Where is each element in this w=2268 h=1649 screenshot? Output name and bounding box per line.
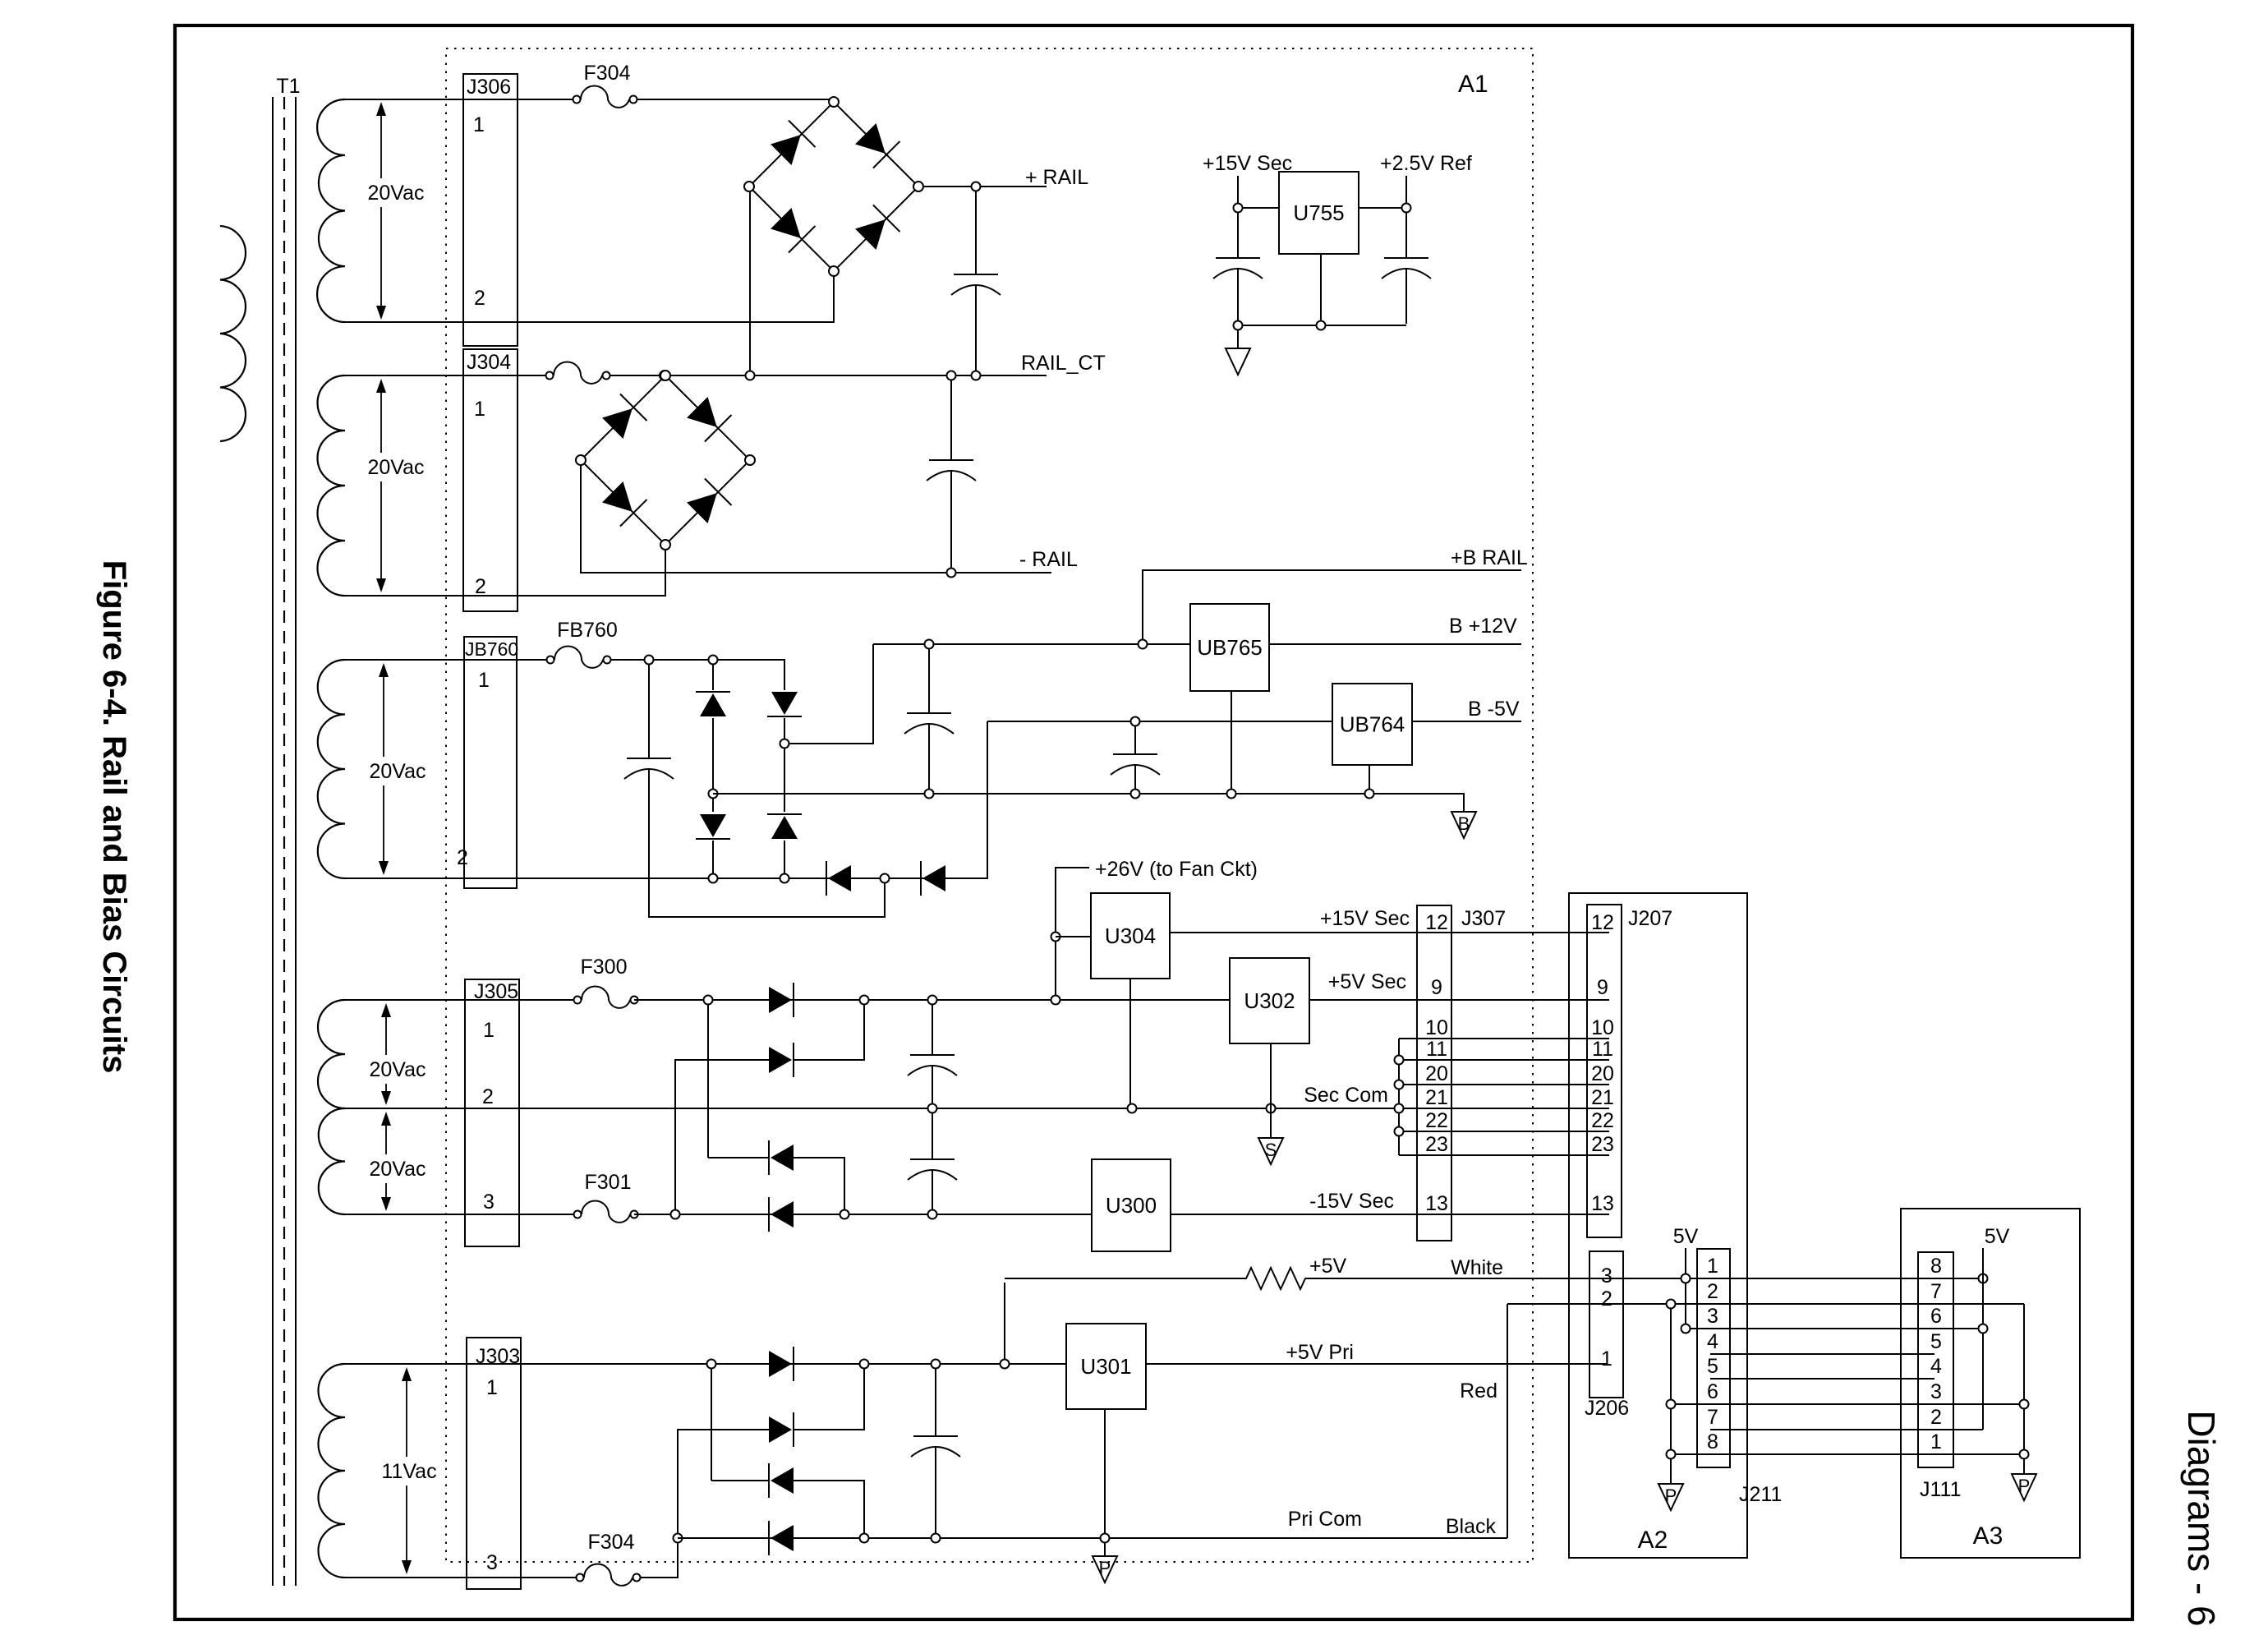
wire: +5V Sec (U302 output to pin 9): [1309, 999, 1609, 1001]
svg-text:- RAIL: - RAIL: [1019, 548, 1078, 571]
wire: W5 top to J303 pin1 rail: [345, 1363, 1066, 1365]
wire: +15V Sec stub to U755 input: [1238, 176, 1279, 208]
svg-text:7: 7: [1707, 1406, 1718, 1429]
resistor R (+5V dropper): [1005, 1268, 1306, 1289]
node: bus at pin 22: [1395, 1127, 1404, 1136]
wire: W3 top to JB760 pin1 / fuse FB760: [345, 659, 547, 661]
svg-text:6: 6: [1707, 1380, 1718, 1403]
wire: W3 bottom (JB760 pin2) rail: [345, 877, 982, 879]
regulator UB764: [1332, 684, 1412, 765]
node: Sec Com at U304 gnd: [1128, 1104, 1137, 1113]
bridge diode (upper-left): [768, 121, 816, 168]
regulator UB765: [1190, 604, 1269, 691]
svg-text:5: 5: [1930, 1330, 1942, 1353]
regulator U300: [1092, 1159, 1171, 1251]
wire: CR2 left node down / -RAIL rail: [581, 465, 1051, 573]
node: +RAIL / C1 junction: [972, 182, 981, 191]
bridge node (bottom): [829, 266, 839, 276]
node: P at J211 pin8: [1667, 1450, 1676, 1459]
node: B+12V unreg node: [780, 739, 789, 748]
wire: U304 input: [1056, 936, 1091, 937]
winding W2 (20Vac, J304): [318, 375, 346, 596]
fuse F304 (J306): [573, 96, 581, 104]
fuse FB760: [547, 656, 554, 664]
svg-text:RAIL_CT: RAIL_CT: [1021, 352, 1106, 375]
bridge diode (lower-right): [684, 479, 732, 527]
winding W3 (20Vac, JB760): [318, 660, 345, 878]
svg-text:+5V Sec: +5V Sec: [1328, 970, 1406, 993]
svg-text:J304: J304: [467, 351, 511, 374]
wire: U304 ground stub: [1129, 979, 1131, 1103]
wire: B -5V rail (left of UB764): [987, 721, 1332, 722]
diode CR761 (to B-5V, first): [826, 861, 851, 896]
wire: F300 to +5V unreg rail: [634, 999, 1230, 1001]
node: B+12V at C6: [925, 640, 934, 649]
node: +5V rail at U304 feed: [1051, 996, 1060, 1005]
node: B-5V at C7: [1131, 717, 1140, 726]
svg-text:3: 3: [1707, 1305, 1718, 1328]
svg-text:U755: U755: [1293, 200, 1344, 225]
bridge node (top): [660, 371, 670, 380]
wire: row 7 (J211-7 / J111-2): [1710, 1429, 1983, 1430]
wire: +5V White row (J206-3 / J211-1 / J111-8): [1306, 1278, 1983, 1279]
connector J303 box: [467, 1338, 521, 1589]
wire: F304 to bridge CR1 top node: [637, 99, 829, 100]
svg-text:3: 3: [1930, 1380, 1942, 1403]
transformer core line (center dashed): [283, 97, 285, 1586]
connector J304 box: [463, 349, 518, 611]
node: U755 output: [1402, 204, 1411, 213]
svg-text:A3: A3: [1973, 1522, 2003, 1550]
diode D401 (from pin3): [769, 1412, 794, 1447]
wire: stub to P ground (U301): [1104, 1543, 1106, 1556]
svg-text:U301: U301: [1080, 1354, 1131, 1379]
bridge node (right): [913, 182, 923, 191]
svg-text:Figure 6-4. Rail and Bias Circ: Figure 6-4. Rail and Bias Circuits: [96, 560, 132, 1074]
node: 5V at J211 pin1: [1681, 1274, 1691, 1283]
svg-text:1: 1: [483, 1019, 495, 1042]
wire: W5 bottom to J303 pin3 / fuse F304: [345, 1577, 577, 1578]
wire: B +12V rail (left of UB765): [873, 643, 1190, 645]
wire: 5V stub left: [1685, 1248, 1686, 1274]
diode D403 (on Pri Com rail): [769, 1521, 794, 1555]
node: +5V rail at C8: [928, 996, 937, 1005]
node: B common at diode col1: [709, 790, 718, 799]
wire: B -5V rail (right of UB764): [1412, 721, 1521, 722]
node: P at J211 pin6: [1667, 1400, 1676, 1409]
diode CR760c (col2 down): [767, 692, 802, 716]
node: 5V at J211 pin3: [1681, 1324, 1691, 1333]
node: Pri Com at C10: [932, 1534, 941, 1543]
svg-text:2: 2: [475, 575, 486, 598]
svg-text:A2: A2: [1638, 1527, 1668, 1554]
connector J206 box: [1589, 1251, 1623, 1398]
svg-text:11: 11: [1592, 1038, 1613, 1061]
wire: U755 ground rail: [1238, 325, 1406, 326]
connector JB760 box: [464, 637, 517, 888]
connector J211 box: [1697, 1249, 1730, 1467]
node: B common at UB765: [1227, 790, 1236, 799]
ground symbol P (A3): [2012, 1474, 2036, 1500]
node: +5V Pri rail at C10: [932, 1360, 941, 1369]
wire: pin 11: [1399, 1059, 1609, 1061]
svg-text:12: 12: [1591, 911, 1614, 934]
wire: W4 mid to J305 pin2 / Sec Com: [345, 1108, 1395, 1109]
node: RAIL_CT at CR1-left vertical: [746, 371, 755, 380]
svg-text:J306: J306: [467, 76, 511, 99]
wire: col2 node to B+12V rail: [789, 644, 873, 744]
diode D303 (neg rect lower, on -15V rail): [769, 1197, 794, 1232]
node: JB760 pin2 at col2: [780, 874, 789, 883]
wire: Sec Com tie bus vertical: [1398, 1039, 1400, 1155]
dimension arrow 20Vac (W2): [376, 379, 386, 393]
wire: D301 cathode up to +5V rail: [794, 1005, 864, 1060]
winding W1 (20Vac, J306): [317, 99, 345, 322]
wire: stub to ground symbol: [1237, 330, 1239, 348]
svg-text:U302: U302: [1244, 988, 1295, 1013]
svg-text:2: 2: [474, 287, 485, 310]
wire: +RAIL from CR1 right node: [923, 186, 1047, 187]
wire: Pri Com rail: [678, 1537, 1507, 1539]
wire: U755 output to +2.5V Ref stub: [1359, 176, 1406, 208]
svg-text:Red: Red: [1460, 1380, 1497, 1403]
node: Pri Com at D402 branch: [860, 1534, 869, 1543]
wire: RAIL_CT rail (J304 pin1 to right): [610, 375, 1047, 376]
node: B common at C7: [1131, 790, 1140, 799]
svg-text:21: 21: [1591, 1086, 1614, 1109]
svg-text:A1: A1: [1458, 71, 1488, 98]
svg-text:JB760: JB760: [465, 638, 518, 660]
svg-text:11: 11: [1426, 1038, 1447, 1061]
svg-text:F304: F304: [584, 62, 631, 85]
dimension arrow 20Vac (W3): [379, 663, 389, 677]
diode D302 (neg rect upper): [769, 1140, 794, 1175]
connector J306 box: [463, 74, 518, 346]
wire: U302 ground stub + S ground stub: [1270, 1043, 1272, 1138]
capacitor C9 (-15V unreg filter): [932, 1113, 933, 1159]
bridge node (bottom): [660, 540, 670, 550]
capacitor C5 (JB760 filter): [648, 665, 650, 758]
node: -15V rail at D302 branch: [840, 1210, 849, 1219]
ground symbol P (A2): [1658, 1484, 1683, 1510]
svg-text:1: 1: [478, 669, 490, 692]
svg-text:3: 3: [1601, 1264, 1612, 1287]
svg-text:8: 8: [1930, 1255, 1942, 1278]
svg-text:F304: F304: [588, 1531, 635, 1554]
svg-text:+5V Pri: +5V Pri: [1286, 1341, 1354, 1364]
svg-text:9: 9: [1431, 976, 1442, 999]
svg-text:F301: F301: [585, 1171, 632, 1194]
svg-text:8: 8: [1707, 1430, 1718, 1453]
wire: W4b bottom to J305 pin3 / fuse F301: [345, 1214, 574, 1215]
svg-text:P: P: [1665, 1485, 1677, 1506]
wire: Red row (J206-2 / J211-2 / J111-7): [1507, 1303, 2024, 1305]
svg-text:Diagrams - 6: Diagrams - 6: [2180, 1410, 2223, 1626]
wire: CR762 to B-5V rail corner: [945, 721, 987, 878]
svg-text:+B RAIL: +B RAIL: [1451, 546, 1528, 569]
transformer primary winding: [220, 226, 246, 441]
bridge node (right): [745, 455, 755, 465]
svg-text:4: 4: [1930, 1355, 1942, 1378]
node: between CR761 and CR762: [881, 874, 890, 883]
wire: pin 22: [1399, 1131, 1609, 1132]
svg-text:Black: Black: [1446, 1515, 1497, 1538]
svg-text:7: 7: [1930, 1280, 1942, 1303]
wire: CR1 left node down to RAIL_CT: [749, 191, 751, 371]
svg-text:5V: 5V: [1985, 1225, 2010, 1248]
wire: row 5 (J211-5 / J111-4): [1710, 1378, 1934, 1380]
svg-text:20Vac: 20Vac: [367, 456, 424, 479]
connector J207 box: [1587, 905, 1622, 1237]
wire: pin 23 (Sec Com bus bottom): [1399, 1154, 1609, 1156]
svg-text:11Vac: 11Vac: [381, 1460, 436, 1483]
dimension arrow 11Vac (W5): [402, 1367, 412, 1381]
svg-text:P: P: [2018, 1476, 2031, 1496]
capacitor C10 (+5V Pri filter): [935, 1369, 936, 1436]
node: P at J111 pin1: [2020, 1450, 2029, 1459]
wire: row 4 (J211-4 / J111-5): [1710, 1353, 1934, 1355]
regulator U304: [1091, 893, 1170, 979]
node: D403 cathode at F304 branch: [674, 1534, 683, 1543]
node: D400 anode junction: [707, 1360, 716, 1369]
svg-text:J211: J211: [1739, 1483, 1782, 1506]
svg-text:Pri Com: Pri Com: [1288, 1508, 1362, 1531]
wire: +5V feed down to U301 input rail: [1004, 1283, 1005, 1359]
wire: D300 cathode vertical to D302: [707, 1005, 709, 1158]
svg-text:+26V (to Fan Ckt): +26V (to Fan Ckt): [1095, 858, 1258, 881]
wire: row 3 (J211-3 / J111-6): [1686, 1328, 1983, 1329]
svg-text:1: 1: [1707, 1255, 1718, 1278]
svg-text:-15V Sec: -15V Sec: [1309, 1190, 1394, 1213]
node: P at J211 pin2: [1667, 1300, 1676, 1309]
node: RAIL_CT at CR2 top: [660, 371, 669, 380]
svg-text:20Vac: 20Vac: [369, 1158, 426, 1181]
transformer core line (left solid): [272, 97, 274, 1586]
svg-text:6: 6: [1930, 1305, 1942, 1328]
svg-text:UB765: UB765: [1197, 635, 1263, 660]
svg-text:20Vac: 20Vac: [367, 182, 424, 205]
svg-text:+ RAIL: + RAIL: [1025, 166, 1088, 189]
winding W5 (11Vac, J303): [319, 1364, 346, 1578]
bridge node (top): [829, 97, 839, 107]
diode D402 (neg rect upper): [769, 1463, 794, 1498]
bridge diode (upper-right): [684, 394, 732, 442]
node: U755 gnd center: [1317, 321, 1326, 330]
wire: W4a top to J305 pin1 / fuse F300: [345, 999, 574, 1001]
svg-text:J305: J305: [474, 980, 518, 1003]
ground symbol P (primary common): [1093, 1556, 1117, 1582]
wire: D400 cathode vertical to D402: [711, 1369, 712, 1481]
wire: P tie left vertical (pins 2,6,8): [1670, 1304, 1672, 1484]
bridge diode (upper-right): [853, 121, 900, 168]
svg-text:13: 13: [1425, 1192, 1448, 1215]
dimension arrow 20Vac (W1): [376, 102, 386, 116]
node: B common at C6: [925, 790, 934, 799]
winding W4a (20Vac upper, J305): [318, 1000, 345, 1108]
node: P at J111 pin3: [2020, 1400, 2029, 1409]
svg-text:2: 2: [1707, 1280, 1718, 1303]
diode D400 (+5V Pri top): [769, 1347, 794, 1381]
node: B+12V at UB765 input: [1139, 640, 1148, 649]
wire: pin 21 Sec Com to J207: [1395, 1108, 1609, 1109]
svg-text:4: 4: [1707, 1330, 1718, 1353]
svg-text:UB764: UB764: [1340, 712, 1405, 737]
node: +5V Pri rail at resistor feed: [1001, 1360, 1010, 1369]
svg-text:J206: J206: [1585, 1397, 1629, 1420]
connector J305 box: [465, 979, 519, 1246]
diode D300 (+5V top): [769, 983, 794, 1017]
svg-text:J303: J303: [476, 1345, 520, 1368]
node: bus at pin 11: [1395, 1056, 1404, 1065]
node: 5V at J111 pin8: [1979, 1274, 1988, 1283]
wire: UB764 ground stub: [1369, 765, 1370, 789]
wire: W1 top to J306 pin1 / fuse F304: [345, 99, 573, 100]
ground symbol (U755): [1226, 348, 1250, 375]
wire: F301 to -15V unreg rail: [634, 1214, 1092, 1215]
regulator U302: [1230, 958, 1309, 1043]
transformer core line (right solid): [295, 97, 297, 1586]
svg-text:21: 21: [1425, 1086, 1448, 1109]
svg-text:2: 2: [482, 1085, 494, 1108]
svg-text:White: White: [1451, 1256, 1503, 1279]
svg-text:Sec Com: Sec Com: [1304, 1084, 1388, 1107]
svg-text:20Vac: 20Vac: [369, 1058, 426, 1081]
node: JB760 pin2 at col1: [709, 874, 718, 883]
svg-text:1: 1: [486, 1376, 498, 1399]
wire: W2 top to J304 pin1 / fuse: [345, 375, 546, 376]
wire: F304 up to Pri Com rail: [640, 1543, 678, 1578]
diode D301 (second, from pin3): [708, 1157, 769, 1158]
svg-text:22: 22: [1425, 1109, 1448, 1132]
svg-text:9: 9: [1597, 976, 1608, 999]
node: Pri Com at U301 gnd: [1101, 1534, 1110, 1543]
svg-text:FB760: FB760: [557, 619, 618, 642]
node: U304 input junction: [1051, 933, 1060, 942]
node: +5V rail at D301 cathode: [860, 996, 869, 1005]
svg-text:B: B: [1458, 813, 1470, 834]
wire: 5V stub/tie right (pins 8,6,2): [1982, 1248, 1984, 1430]
capacitor C2 (RAIL_CT to -RAIL): [950, 380, 952, 460]
fuse F304 (J303): [577, 1574, 584, 1582]
svg-text:B +12V: B +12V: [1449, 615, 1517, 638]
svg-text:20Vac: 20Vac: [369, 760, 426, 783]
svg-text:10: 10: [1425, 1016, 1448, 1039]
node: -RAIL at C2 bottom: [947, 569, 956, 578]
node: RAIL_CT at C2 top: [947, 371, 956, 380]
svg-text:B -5V: B -5V: [1468, 698, 1520, 721]
svg-text:5V: 5V: [1673, 1225, 1699, 1248]
svg-text:2: 2: [1930, 1406, 1942, 1429]
svg-text:3: 3: [486, 1551, 498, 1574]
svg-text:T1: T1: [276, 75, 300, 98]
diode CR762 (to B-5V, second): [921, 861, 945, 896]
wire: D401 anode corner from Pri Com side: [678, 1430, 769, 1533]
dimension arrow 20Vac (W4a): [381, 1003, 391, 1017]
A3 board outline: [1901, 1209, 2080, 1558]
svg-text:2: 2: [457, 846, 468, 869]
svg-text:1: 1: [1601, 1347, 1612, 1370]
bridge diode (lower-left): [600, 479, 647, 527]
capacitor C4 (U755 output bypass): [1405, 213, 1407, 258]
wire: U301 ground stub: [1104, 1409, 1106, 1533]
svg-text:2: 2: [1601, 1287, 1612, 1310]
svg-text:+15V Sec: +15V Sec: [1320, 907, 1410, 930]
node: RAIL_CT at C1 bottom: [972, 371, 981, 380]
wire: +15V Sec (U304 output to J307/J207 pin 12): [1170, 932, 1609, 933]
regulator U301: [1066, 1324, 1146, 1409]
svg-text:J207: J207: [1628, 907, 1672, 930]
node: U755 input: [1234, 204, 1243, 213]
svg-text:+5V: +5V: [1309, 1255, 1347, 1278]
node: bus at pin 20: [1395, 1080, 1404, 1089]
svg-text:U304: U304: [1105, 924, 1156, 948]
bridge rectifier diamond wires: [581, 375, 750, 545]
capacitor C8 (+5V unreg filter): [932, 1005, 933, 1055]
wire: +B RAIL: [1143, 570, 1521, 643]
svg-text:J307: J307: [1461, 907, 1506, 930]
diode CR760b (col1 down): [712, 799, 714, 812]
wire: U755 ground pin stub: [1320, 254, 1322, 321]
ground symbol B: [1451, 812, 1476, 838]
node: -15V rail at C9: [928, 1210, 937, 1219]
svg-text:23: 23: [1591, 1133, 1614, 1156]
node: B common at UB764: [1365, 790, 1374, 799]
wire: pin 10 (Sec Com bus top): [1399, 1038, 1609, 1039]
node: C5 top junction: [645, 656, 654, 665]
wire: P tie right vertical (pins 7,3,1): [2023, 1304, 2025, 1474]
svg-text:J111: J111: [1920, 1478, 1962, 1501]
wire: B +12V rail (right of UB765): [1269, 643, 1521, 645]
wire: D401 cathode up to +5V Pri rail: [794, 1369, 864, 1430]
node: bus at pin 21: [1395, 1104, 1404, 1113]
wire: row 8 (J211-8 / J111-1): [1671, 1453, 2024, 1455]
wire: D301 anode corner from F301 rail: [675, 1060, 769, 1209]
fuse (J304): [546, 372, 554, 380]
capacitor C3 (U755 input bypass): [1237, 213, 1239, 258]
A2 board outline: [1569, 893, 1747, 1558]
wire: UB765 ground stub: [1231, 691, 1232, 789]
wire: +26V stub and U304 input feed: [1056, 868, 1089, 996]
diode CR760d (col2 up): [784, 748, 785, 812]
capacitor C6 (B+12V filter): [928, 649, 930, 713]
bridge diode (upper-left): [600, 394, 647, 442]
bridge node (left): [744, 182, 754, 191]
svg-text:22: 22: [1591, 1109, 1614, 1132]
svg-text:1: 1: [473, 113, 485, 136]
wire: D302 anode to -15V rail: [794, 1158, 844, 1209]
svg-text:1: 1: [474, 398, 485, 421]
wire: pin 20: [1399, 1084, 1609, 1085]
ground symbol S (secondary common): [1258, 1138, 1283, 1164]
node: 5V at J111 pin6: [1979, 1324, 1988, 1333]
wire: 5V tie left vertical (pins 1-3): [1685, 1283, 1686, 1329]
fuse F300: [574, 997, 582, 1004]
svg-text:5: 5: [1707, 1355, 1718, 1378]
regulator U755: [1279, 172, 1359, 254]
bridge rectifier diamond wires: [749, 102, 918, 271]
diode CR760a (col1 up): [712, 665, 714, 690]
svg-text:23: 23: [1425, 1133, 1448, 1156]
node: U755 gnd left: [1234, 321, 1243, 330]
capacitor C7 (B-5V filter): [1134, 726, 1136, 754]
svg-text:1: 1: [1930, 1430, 1942, 1453]
node: Sec Com at U302 gnd / S ground: [1267, 1104, 1276, 1113]
winding W4b (20Vac lower, J305): [319, 1108, 345, 1214]
svg-text:13: 13: [1591, 1192, 1614, 1215]
bridge diode (lower-left): [768, 205, 816, 253]
svg-text:10: 10: [1591, 1016, 1614, 1039]
dimension arrow 20Vac (W4b): [381, 1112, 391, 1126]
